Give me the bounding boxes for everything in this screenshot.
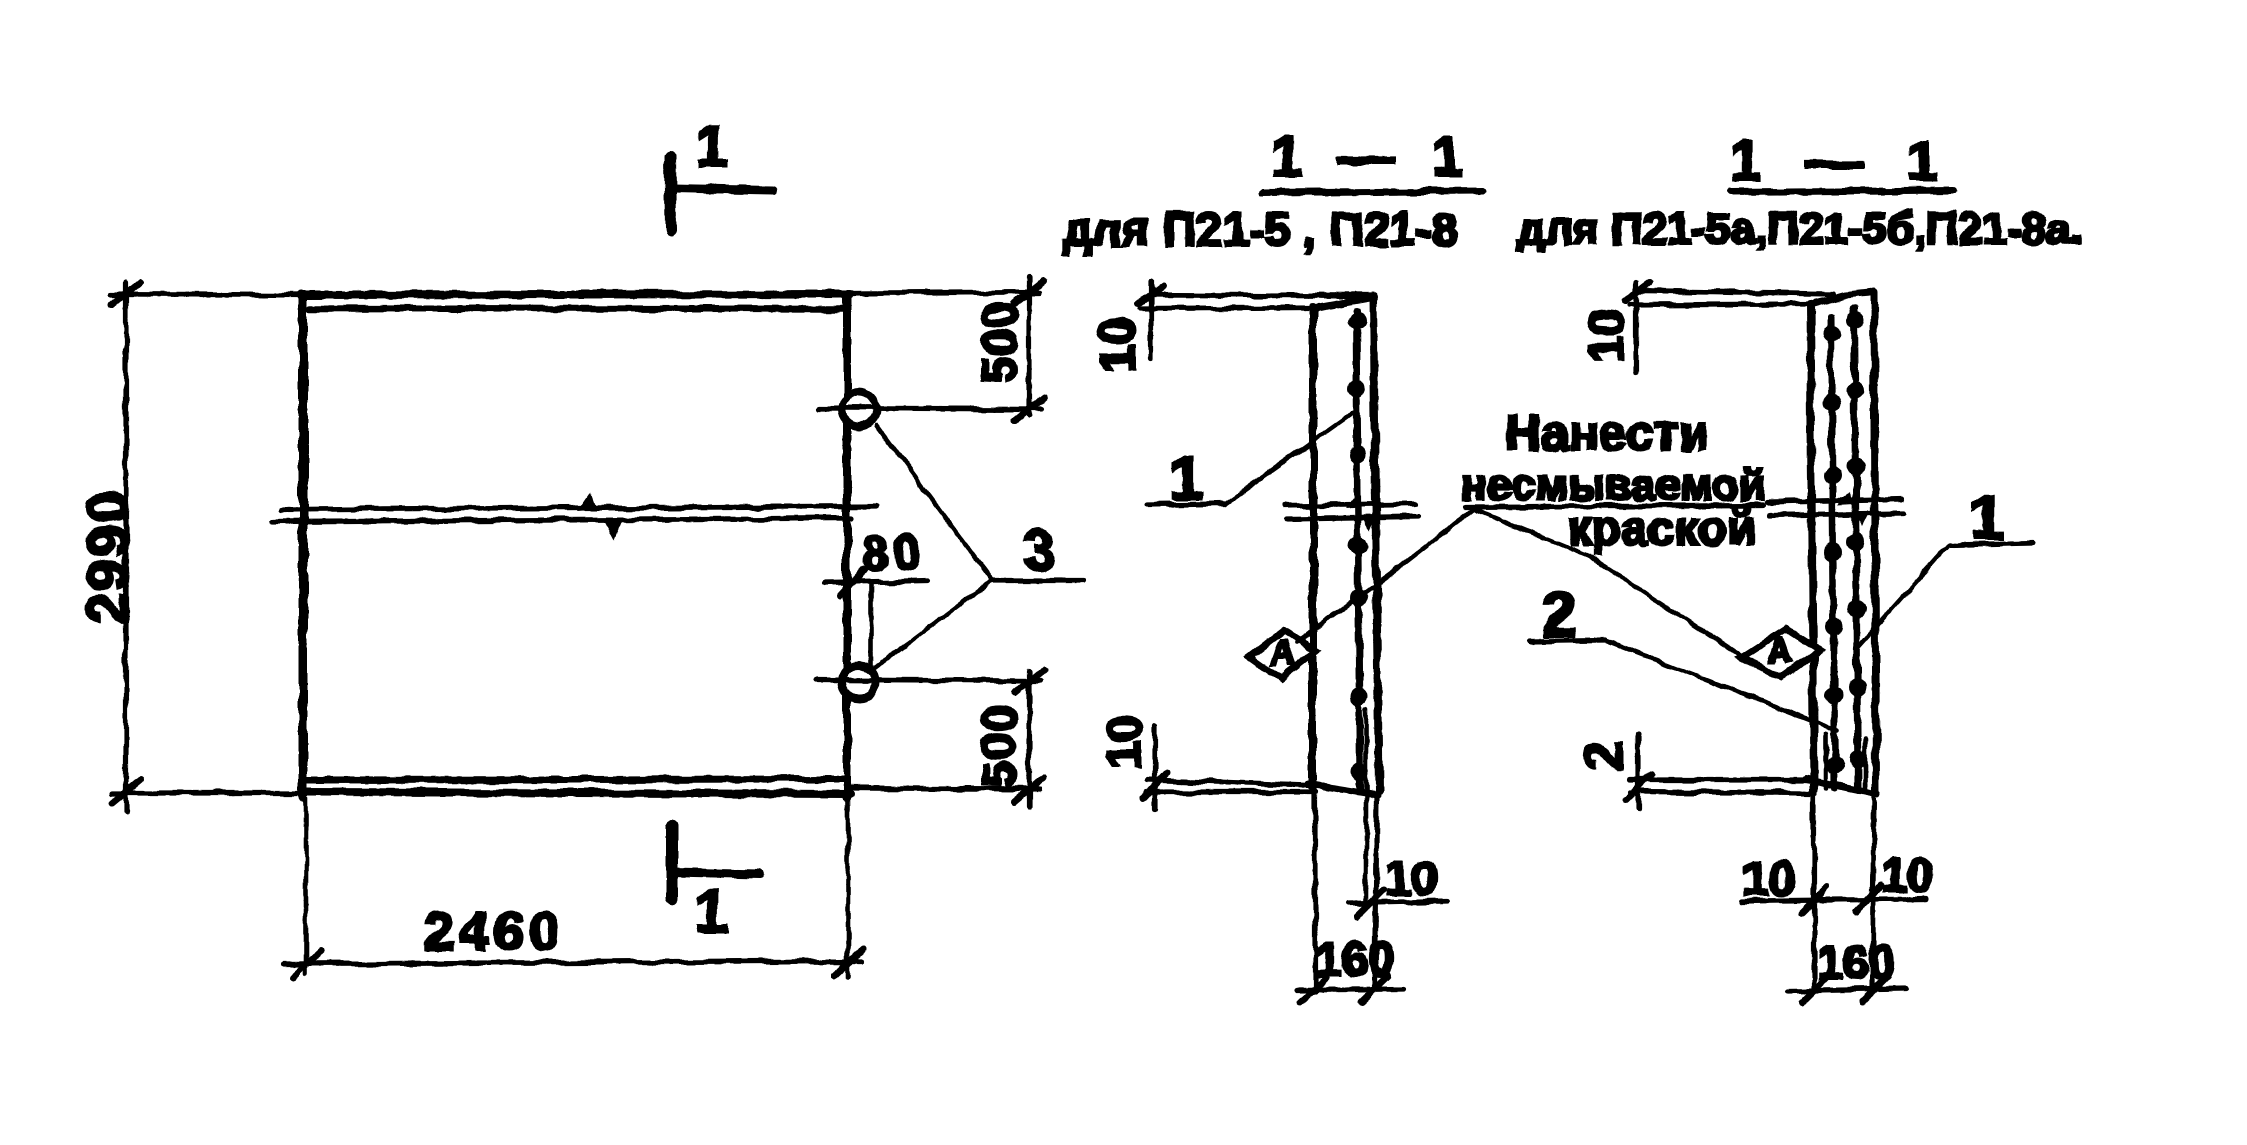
section mark bottom vertical bar: [666, 826, 678, 899]
svg-text:500: 500: [974, 300, 1027, 383]
svg-text:1: 1: [695, 879, 727, 944]
dim 160 middle dimension line: [1296, 989, 1404, 990]
middle break line lower: [1288, 517, 1418, 519]
dim 10 leg line middle: [1348, 901, 1447, 903]
middle break arrow up: [1345, 496, 1361, 509]
label 1 middle underline: [1147, 504, 1225, 505]
upper lifting loop circle: [842, 392, 876, 426]
svg-text:10: 10: [1089, 317, 1145, 373]
dim 160 right left tick: [1802, 977, 1828, 1003]
right rebar hook short line left: [1824, 734, 1829, 788]
dim 80 tick: [840, 570, 864, 596]
dim 10 leg slash middle: [1357, 890, 1383, 916]
right break arrow up: [1838, 492, 1854, 505]
dim 2990 top tick: [112, 281, 141, 305]
dim 2990 bottom extension line: [111, 790, 303, 795]
diamond A middle: [1250, 630, 1316, 678]
lower lifting loop circle: [842, 665, 876, 699]
dim 500 top tick lower: [1015, 397, 1044, 420]
dim 500 bottom tick lower: [1015, 777, 1044, 801]
right break line lower: [1769, 513, 1904, 515]
svg-text:80: 80: [862, 528, 923, 581]
panel rect bottom edge outer: [303, 792, 850, 794]
dim 10 top-left right-panel upper extension: [1637, 291, 1833, 294]
svg-text:2460: 2460: [424, 901, 564, 961]
leader 3 from upper circle: [877, 425, 992, 581]
right bottom extension lower: [1630, 792, 1815, 793]
right break line upper: [1767, 499, 1902, 502]
dim 2460 left extension below rect: [304, 798, 309, 975]
right rebar line right: [1854, 308, 1858, 790]
dim 500 top extension (top): [850, 292, 1040, 293]
dim 500 top tick upper: [1015, 281, 1044, 304]
middle rebar dots: [1348, 312, 1369, 781]
panel rect top edge inner: [310, 308, 843, 309]
dim 10 top-left right-panel lower extension: [1630, 304, 1810, 305]
svg-text:10: 10: [1743, 851, 1795, 904]
leader 3 horizontal: [992, 578, 1083, 583]
dim 500 bottom vertical line: [1026, 671, 1031, 806]
section mark top horizontal bar: [672, 188, 773, 190]
right rebar line left: [1831, 315, 1835, 788]
dim 10 bottom-left tick line: [1152, 726, 1157, 810]
svg-text:A: A: [1768, 632, 1793, 670]
middle break line upper: [1286, 504, 1416, 506]
panel rect top edge outer: [300, 294, 849, 295]
dim 10 bottom-left slash: [1143, 773, 1167, 799]
note leader to right diamond: [1477, 510, 1742, 657]
joint arrow down: [604, 518, 623, 540]
middle panel right edge: [1373, 297, 1379, 791]
middle joint line lower: [272, 518, 852, 522]
middle panel left edge: [1309, 307, 1317, 786]
svg-text:для П21-5а,П21-5б,П21-8а.: для П21-5а,П21-5б,П21-8а.: [1517, 205, 2083, 254]
dim 2 bottom-left tick line: [1635, 734, 1640, 808]
diamond A right: [1742, 629, 1820, 678]
svg-text:10: 10: [1579, 310, 1632, 362]
svg-text:Нанести: Нанести: [1505, 405, 1709, 461]
middle bottom extension upper: [1147, 780, 1312, 785]
right panel right edge: [1874, 292, 1876, 793]
dim 2990 vertical dimension line: [123, 282, 128, 812]
panel rect bottom edge inner: [306, 779, 847, 780]
dim 10 top-left tick line: [1148, 281, 1153, 358]
dim 2460 left tick: [292, 950, 321, 977]
dim 160 middle left tick: [1300, 977, 1327, 1003]
dim 160 right right tick: [1862, 976, 1888, 1002]
middle bottom extension lower: [1147, 789, 1316, 794]
dim 500 bottom tick upper: [1015, 669, 1044, 693]
label 2 underline: [1530, 640, 1604, 641]
svg-text:краской: краской: [1568, 503, 1757, 556]
dim 80 vertical extension: [869, 583, 874, 667]
dim 160 right dimension line: [1788, 989, 1905, 991]
svg-text:10: 10: [1881, 848, 1933, 901]
dim 500 bottom extension (bottom): [850, 788, 1040, 789]
svg-text:1 — 1: 1 — 1: [1271, 125, 1473, 189]
dim 500 bottom extension (through lower circle): [816, 680, 1040, 681]
right bottom extension upper: [1630, 777, 1810, 782]
dim 10 top-left right-panel tick line: [1634, 281, 1639, 371]
svg-text:2990: 2990: [76, 490, 140, 625]
dim 80 horizontal line: [824, 581, 928, 583]
dim 2 bottom-left slash: [1626, 774, 1652, 800]
dim 2990 top extension line: [110, 294, 301, 295]
section mark bottom horizontal bar: [672, 872, 760, 874]
dim 2460 right extension below rect: [846, 798, 851, 978]
middle break arrow down: [1362, 515, 1377, 531]
middle panel top edge: [1313, 297, 1375, 308]
right panel left leg: [1811, 790, 1816, 990]
svg-text:A: A: [1271, 634, 1296, 672]
section mark top vertical bar: [670, 156, 671, 229]
title underline middle: [1263, 191, 1482, 193]
label 1 right leader: [1856, 544, 1950, 649]
panel rect right edge: [843, 295, 851, 797]
label 1 middle leader: [1225, 413, 1353, 504]
panel rect left edge: [299, 297, 308, 797]
dim 10 top-left right-panel slash: [1625, 283, 1650, 301]
right rebar dots left line: [1823, 325, 1844, 775]
svg-text:10: 10: [1099, 715, 1152, 768]
label 1 right underline: [1950, 543, 2033, 545]
title underline right: [1730, 190, 1953, 192]
dim 10 top-left upper extension: [1151, 295, 1371, 296]
middle panel bottom edge: [1309, 784, 1378, 795]
dim 10-10 legs line right: [1743, 899, 1926, 901]
label 2 leader: [1604, 640, 1838, 731]
right rebar dots right line: [1846, 311, 1867, 769]
svg-text:500: 500: [974, 704, 1027, 787]
note leader to left diamond: [1296, 509, 1474, 642]
svg-text:10: 10: [1385, 851, 1437, 904]
dim 2460 dimension line: [283, 961, 862, 964]
svg-text:2: 2: [1576, 742, 1634, 771]
dim 10-10 right slash: [1855, 886, 1881, 912]
joint arrow up: [578, 492, 597, 511]
right rebar hook short line right: [1863, 738, 1868, 790]
middle rebar bottom parallel leg: [1364, 710, 1369, 904]
middle joint line upper: [281, 506, 876, 510]
dim 2460 right tick: [834, 949, 863, 976]
svg-text:1: 1: [696, 114, 728, 179]
dim 10-10 left slash: [1802, 887, 1828, 913]
right panel top edge: [1810, 292, 1874, 305]
svg-text:1 — 1: 1 — 1: [1730, 129, 1952, 193]
right panel right leg: [1872, 793, 1874, 988]
right break arrow down: [1855, 511, 1870, 527]
right panel bottom edge: [1806, 779, 1878, 794]
middle rebar line: [1356, 311, 1360, 788]
dim 500 top vertical line: [1026, 277, 1031, 416]
dim 160 middle right tick: [1361, 976, 1388, 1002]
dim 10 top-left lower extension: [1141, 308, 1313, 309]
right panel left edge: [1810, 304, 1814, 790]
svg-text:3: 3: [1023, 518, 1055, 583]
leader 3 from lower circle: [875, 581, 992, 668]
svg-text:для П21-5 , П21-8: для П21-5 , П21-8: [1062, 202, 1457, 255]
dim 10 top-left slash: [1139, 286, 1163, 304]
middle right leg: [1375, 795, 1377, 985]
dim 500 top extension (through upper circle): [818, 408, 1040, 409]
middle left leg: [1312, 786, 1317, 992]
dim 2990 bottom tick: [112, 779, 141, 803]
note underline: [1465, 505, 1763, 507]
